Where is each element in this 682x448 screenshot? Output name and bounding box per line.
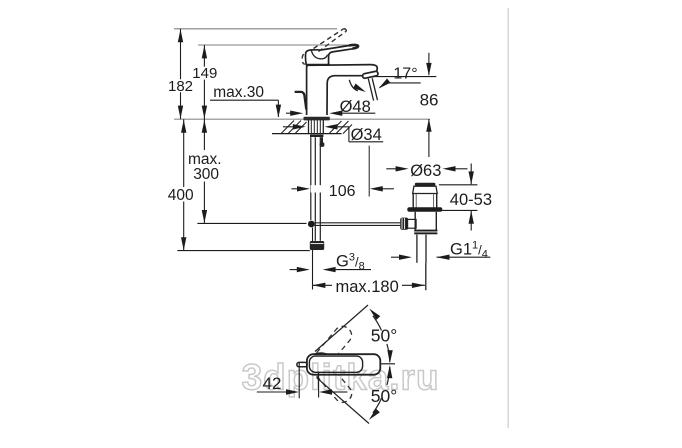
handle blade tip thick — [349, 45, 358, 49]
pop-up horizontal rod — [315, 223, 401, 226]
svg-text:42: 42 — [263, 374, 282, 393]
top view: handle inner — [309, 356, 362, 372]
50 deg lower ray — [317, 378, 370, 424]
text gap 400 — [166, 187, 203, 202]
faucet body front view — [307, 65, 378, 115]
dim Ø48 — [286, 112, 375, 114]
drain knob stem — [407, 219, 416, 228]
top view: dashed handle rotated up — [306, 323, 355, 406]
drain body — [415, 212, 436, 230]
svg-text:149: 149 — [192, 65, 217, 82]
ext line 149 — [198, 44, 353, 46]
dim 42 — [257, 363, 348, 398]
svg-text:max.30: max.30 — [213, 84, 264, 101]
dim max.300 — [203, 119, 205, 223]
dim max.180 — [312, 228, 425, 290]
svg-text:86: 86 — [420, 91, 439, 110]
dim 400 — [183, 119, 185, 250]
drain plug body — [413, 186, 438, 193]
deck top line — [174, 118, 430, 120]
dim G3/8 — [290, 269, 371, 271]
svg-text:300: 300 — [193, 166, 219, 183]
dim 40-53 — [439, 164, 478, 231]
svg-text:50°: 50° — [371, 386, 397, 406]
dim 86 — [428, 53, 430, 157]
faucet handle front view — [306, 45, 359, 65]
rod guide fitting — [321, 137, 323, 142]
dim 106 — [292, 188, 394, 190]
17 deg leader — [380, 83, 421, 88]
svg-text:40-53: 40-53 — [450, 191, 492, 209]
ext line max300 — [197, 222, 306, 224]
svg-text:max.180: max.180 — [336, 278, 399, 296]
svg-text:400: 400 — [168, 187, 194, 204]
dim max.30 leader — [210, 100, 278, 117]
dim G1 1/4 — [391, 256, 490, 258]
svg-text:Ø63: Ø63 — [410, 162, 441, 180]
ext line 400 — [177, 250, 309, 252]
handle seam — [311, 50, 327, 59]
drain lower band — [414, 230, 437, 232]
base plate — [304, 117, 330, 121]
gray divider line — [507, 8, 509, 428]
swing arc upper — [373, 316, 382, 331]
text gap 182 — [167, 79, 197, 92]
dim Ø63 — [386, 168, 467, 170]
text gap max.300 — [186, 150, 224, 182]
G3/8 nut — [310, 241, 324, 250]
top view: handle outer — [307, 354, 380, 375]
drain flange — [407, 207, 442, 212]
svg-text:Ø34: Ø34 — [351, 126, 382, 144]
dim 149 — [203, 45, 205, 119]
top view: rod knob — [297, 362, 307, 366]
deck hatching left — [281, 121, 307, 134]
dim 182 — [180, 29, 182, 119]
supply pipes — [311, 137, 321, 241]
drain neck — [413, 194, 437, 208]
water stream — [368, 78, 377, 100]
svg-text:50°: 50° — [371, 326, 397, 346]
0 deg reference line — [381, 363, 396, 365]
shank lock nut — [310, 135, 323, 137]
svg-text:17°: 17° — [393, 66, 417, 83]
17 deg reference line — [372, 76, 436, 78]
ext line top 182 — [174, 28, 337, 30]
ext line 106 vertical — [368, 146, 370, 197]
boss bottom shadow — [306, 64, 330, 66]
drain side knob — [400, 218, 408, 230]
deck bottom line — [272, 133, 342, 135]
flow arrow — [349, 80, 358, 91]
svg-text:106: 106 — [329, 183, 356, 200]
pipe gap at 106 dim — [311, 185, 322, 192]
drain tailpipe — [417, 235, 426, 291]
drain cap — [415, 183, 436, 186]
dim Ø34 — [283, 127, 383, 142]
threaded shank — [309, 120, 324, 135]
handle raised dashed — [302, 29, 346, 65]
spout outlet — [362, 71, 378, 79]
pop-up pivot ball — [308, 221, 315, 228]
text gap 149 — [190, 67, 221, 80]
top view: dashed handle rotated down — [306, 352, 355, 406]
50 deg upper ray — [315, 305, 368, 352]
top view: handle bump — [314, 353, 327, 354]
pop-up rod knob front — [295, 92, 307, 110]
svg-text:182: 182 — [168, 78, 193, 95]
deck hatching right — [329, 121, 352, 134]
svg-text:Ø48: Ø48 — [340, 98, 371, 116]
swing arc lower — [387, 367, 390, 385]
